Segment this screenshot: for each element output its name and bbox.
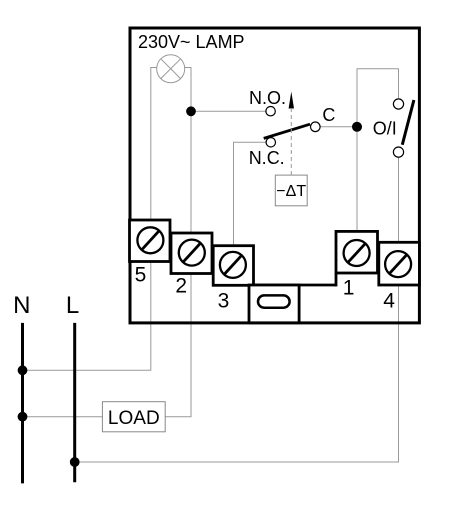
- terminal 5 square: [130, 220, 171, 262]
- supply line L: [73, 323, 76, 482]
- junction dot: lamp/N.O. node: [186, 106, 196, 116]
- wire: C junction down to terminal 1: [356, 127, 358, 253]
- wire: O/I bottom through terminal 4 down to L junction: [75, 157, 399, 462]
- svg-text:2: 2: [175, 275, 187, 298]
- contact N.C.: [266, 138, 275, 147]
- svg-text:N.C.: N.C.: [249, 148, 285, 168]
- switch O/I bottom contact: [393, 147, 403, 157]
- junction dot: L to terminal 4: [70, 457, 80, 467]
- wire: N.C. contact to terminal 3: [234, 142, 267, 265]
- wire: C contact to junction and up over to O/I top: [320, 69, 398, 127]
- svg-text:O/I: O/I: [373, 118, 397, 138]
- svg-text:230V~ LAMP: 230V~ LAMP: [138, 32, 245, 52]
- thermostat element box -ΔT: [275, 175, 307, 206]
- cable entry box: [249, 285, 299, 323]
- wire: LOAD to N line: [23, 416, 103, 418]
- junction dot: N to LOAD: [18, 412, 28, 422]
- terminal block step: horizontal ledge: [254, 284, 337, 287]
- junction dot: N to terminal 5: [18, 365, 28, 375]
- terminal 2 square: [171, 233, 212, 274]
- svg-text:4: 4: [383, 289, 395, 312]
- contact N.O.: [266, 107, 275, 116]
- svg-text:5: 5: [135, 264, 147, 287]
- svg-text:L: L: [66, 292, 79, 319]
- svg-text:1: 1: [343, 277, 355, 300]
- svg-text:3: 3: [218, 289, 230, 312]
- svg-text:LOAD: LOAD: [108, 408, 160, 429]
- terminal 4 square: [379, 242, 420, 285]
- lamp E1 (circle with X): [157, 55, 185, 83]
- screw of terminal 3: [220, 252, 246, 278]
- switch O/I lever: [402, 100, 414, 145]
- screw of terminal 5: [137, 227, 163, 253]
- terminal 1 square: [336, 231, 378, 273]
- svg-text:N: N: [13, 292, 30, 319]
- switch lever S1 (N.C. to C): [264, 124, 310, 138]
- screw of terminal 4: [385, 251, 411, 277]
- wire: lamp right down through terminal 2 to LOAD: [165, 68, 191, 417]
- screw of terminal 2: [179, 240, 205, 266]
- dashed actuator line: [290, 108, 292, 175]
- junction dot: C node: [352, 122, 362, 132]
- device enclosure box: [130, 28, 419, 323]
- terminal 3 square: [213, 246, 253, 286]
- terminal block step: vertical riser: [335, 273, 338, 286]
- contact C: [311, 122, 321, 132]
- svg-text:−ΔT: −ΔT: [276, 183, 306, 200]
- switch O/I top contact: [393, 99, 403, 109]
- wire: terminal 5 to N junction: [23, 68, 157, 371]
- cable entry slot (oval): [258, 295, 290, 307]
- LOAD box: [102, 402, 165, 432]
- supply line N: [21, 323, 24, 484]
- wire: junction to N.O. contact: [191, 110, 266, 112]
- screw of terminal 1: [344, 240, 370, 266]
- svg-text:N.O.: N.O.: [249, 88, 286, 108]
- svg-text:C: C: [322, 105, 335, 125]
- arrow head (actuation direction): [289, 92, 294, 109]
